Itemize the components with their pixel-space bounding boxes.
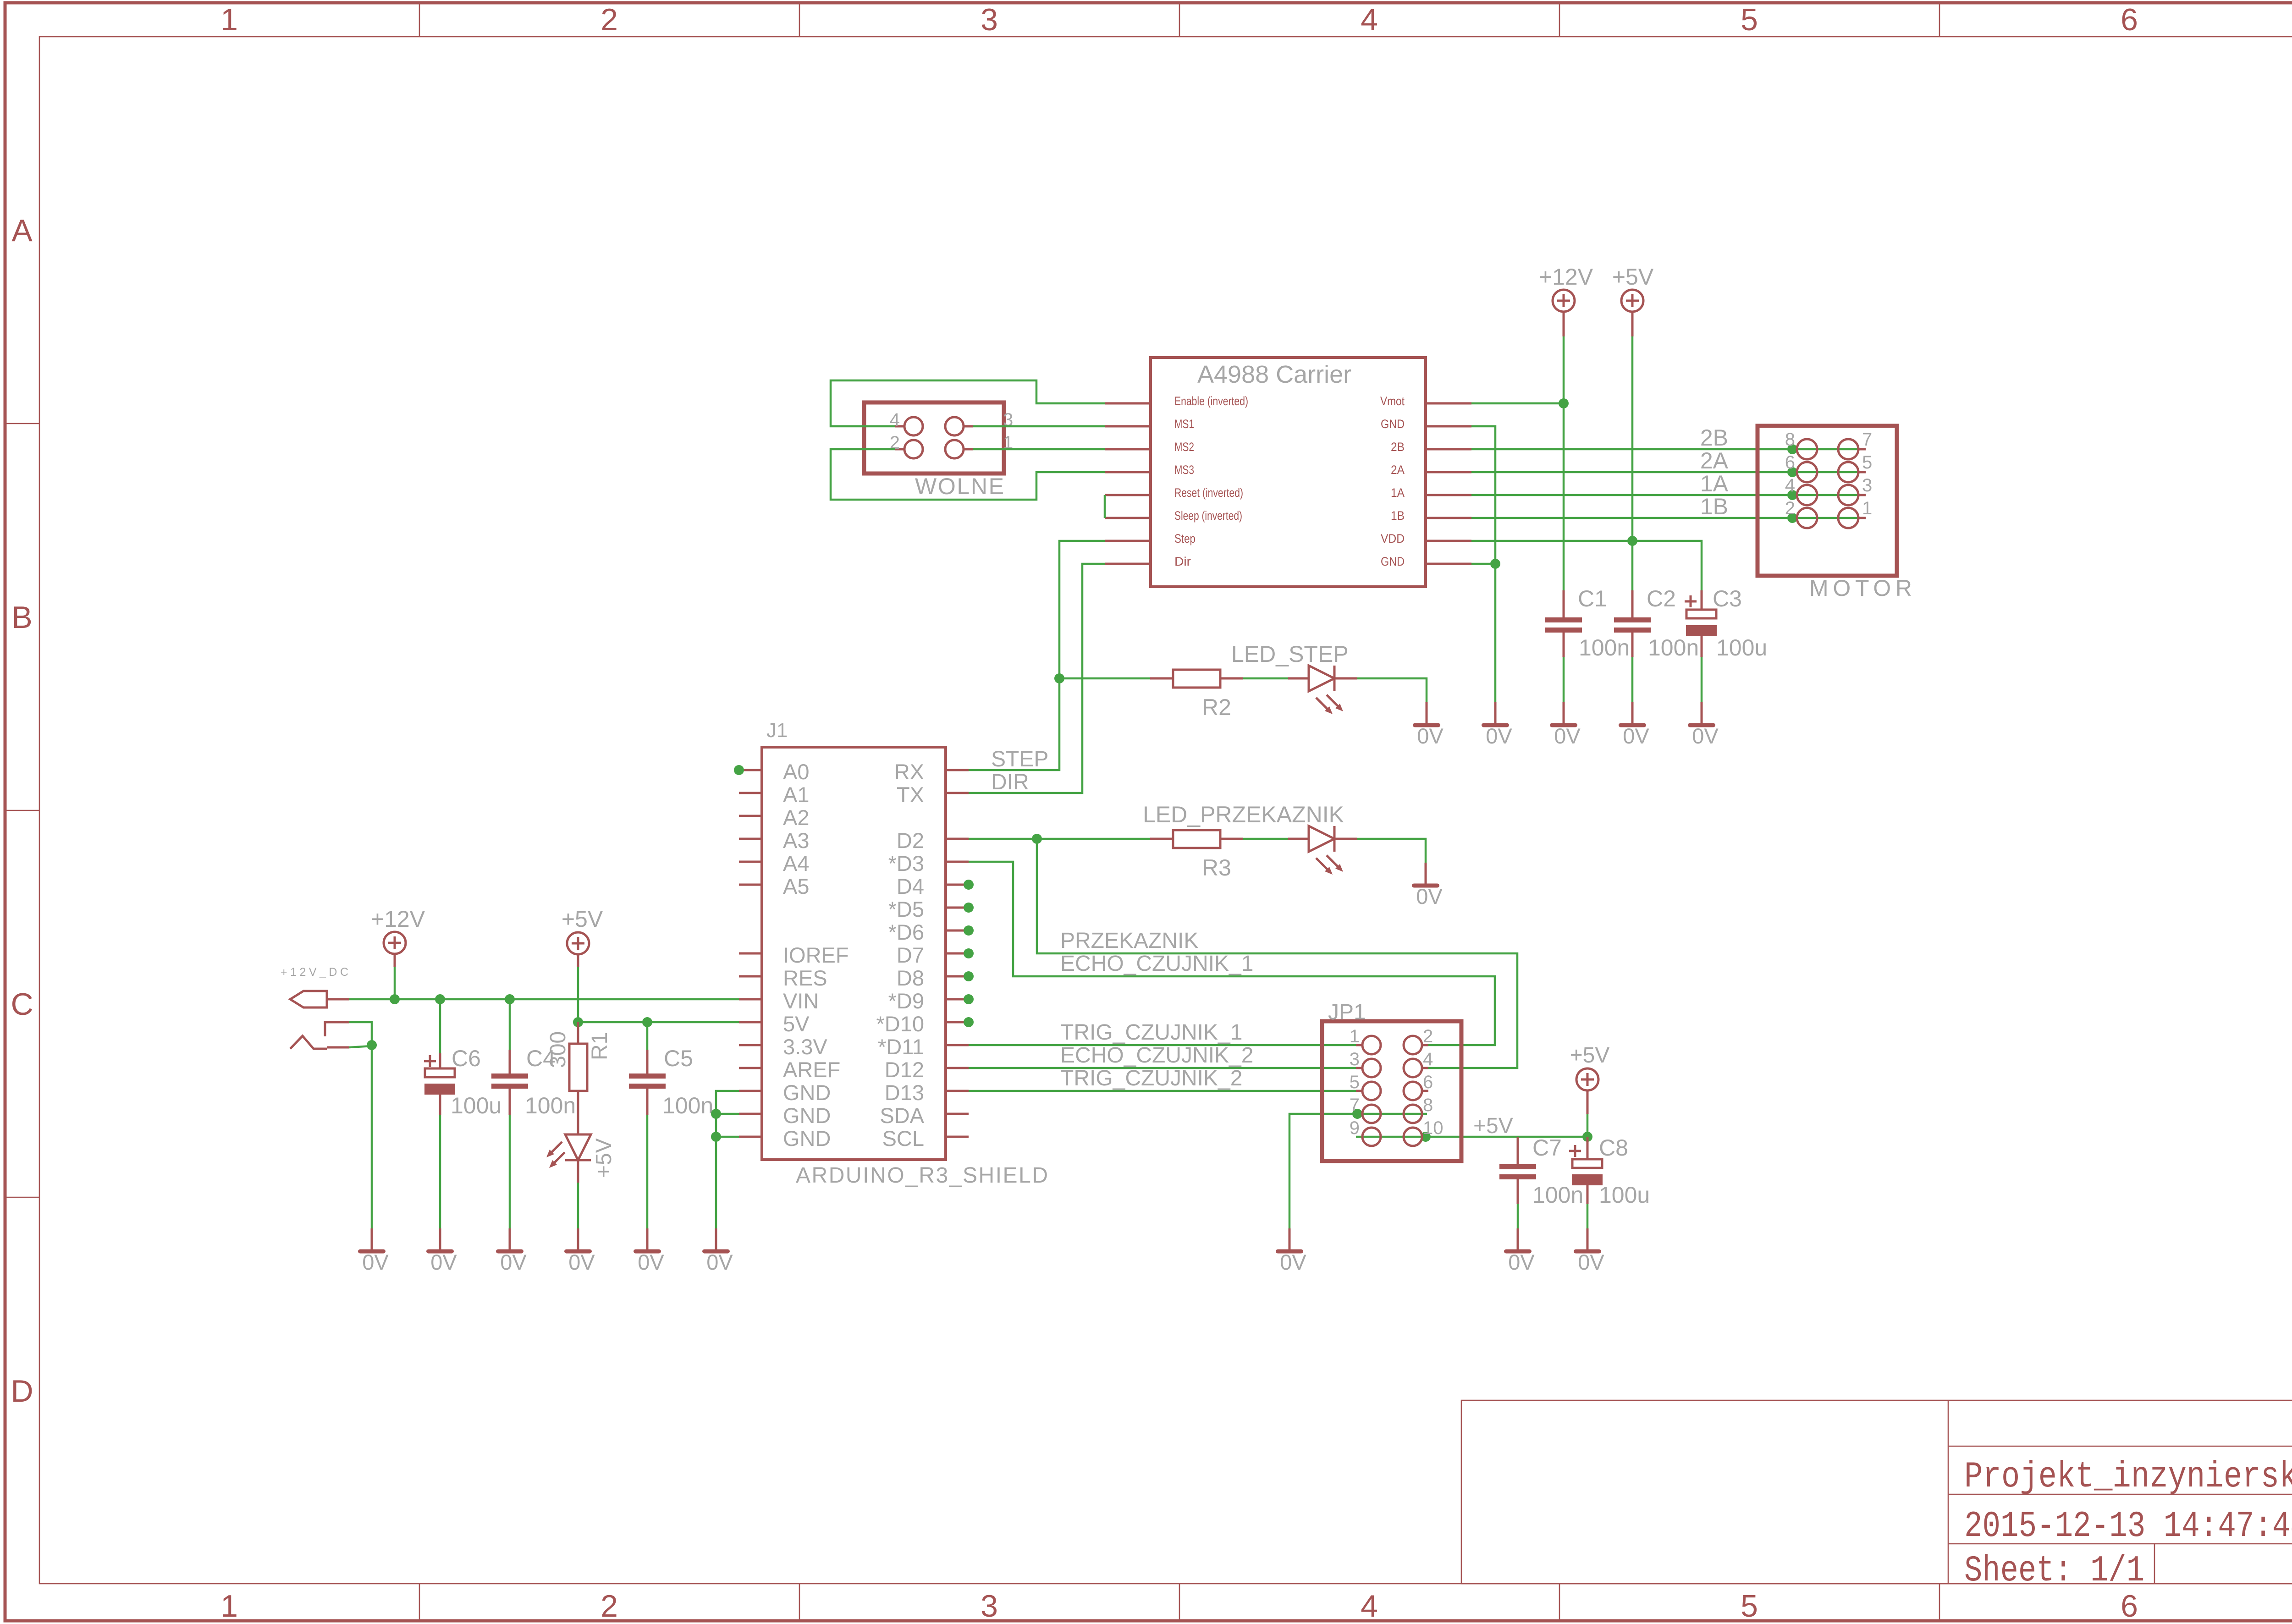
svg-text:D13: D13 [885,1080,924,1105]
net wire +5V supply to C8 [1587,1114,1589,1137]
capacitor C8 top pin [1587,1137,1589,1159]
svg-text:Enable (inverted): Enable (inverted) [1174,394,1248,408]
WOLNE pin3 stub [964,425,973,428]
svg-text:10: 10 [1423,1118,1444,1138]
U1 pin Enable stub [1105,402,1151,405]
capacitor C8 positive plate [1572,1159,1602,1168]
svg-text:A4: A4 [783,851,810,875]
svg-text:TRIG_CZUJNIK_2: TRIG_CZUJNIK_2 [1060,1066,1242,1090]
JP1 pin1 stub [1356,1044,1362,1046]
LED1 cathode pin [577,1160,579,1183]
svg-text:A: A [11,213,33,248]
MOTOR pin7 circle [1838,439,1858,459]
net wire C2 to ground [1631,657,1634,702]
svg-text:0V: 0V [1692,724,1719,748]
svg-text:300: 300 [546,1031,570,1068]
svg-text:C5: C5 [664,1046,693,1071]
svg-text:D8: D8 [897,966,924,990]
svg-text:100u: 100u [1599,1182,1650,1208]
net wire +5V supply drop [577,967,579,1022]
svg-text:ECHO_CZUJNIK_1: ECHO_CZUJNIK_1 [1060,952,1253,976]
net wire 1B to motor [1471,517,1859,519]
LED3 emission arrows [1316,855,1343,875]
svg-text:J1: J1 [766,719,788,742]
capacitor C7 bottom pin [1517,1179,1519,1204]
net wire C6 to ground [439,1115,441,1228]
svg-text:IOREF: IOREF [783,943,849,967]
net wire GND pin 2 [716,1113,739,1115]
svg-text:*D5: *D5 [888,897,924,921]
LED2 triangle [1309,666,1334,691]
resistor R1 body [569,1044,587,1091]
supply +12V symbol top [1553,290,1575,336]
connector J1 ARDUINO_R3_SHIELD box [762,747,946,1160]
net wire C4 to ground [509,1115,511,1228]
net wire +12V vertical to Vmot and C1 [1563,336,1565,590]
svg-text:2: 2 [1423,1026,1433,1046]
J1 right pin labels [876,760,924,1151]
svg-text:D: D [11,1374,33,1409]
X1 sleeve contact [325,1022,349,1036]
net wire JP1 pins 9-10 +5V [1356,1136,1587,1138]
net wire C5 to ground [646,1115,649,1228]
net wire ECHO_CZUJNIK_2 [969,1067,1356,1069]
net wire 1A to motor [1471,494,1859,496]
resistor R2 left pin [1150,677,1173,680]
svg-text:A0: A0 [783,760,810,784]
ground symbol under LED1 [564,1228,595,1274]
svg-text:+5V: +5V [1612,264,1654,290]
JP1 pin4 stub [1422,1067,1428,1069]
MOTOR pin3 stub [1858,494,1866,496]
svg-text:GND: GND [783,1103,831,1128]
column tick 3/4 bottom [1179,1584,1180,1621]
junction +5V/R1 [573,1017,583,1027]
svg-text:0V: 0V [1416,884,1443,908]
svg-text:3: 3 [981,2,998,37]
supply +5V symbol above C8 [1576,1068,1598,1114]
net wire PRZEKAZNIK [1037,839,1517,1068]
svg-text:C1: C1 [1578,586,1607,611]
ground symbol under C5 [634,1228,664,1274]
U1 pin MS1 stub [1105,425,1151,428]
svg-text:R3: R3 [1202,855,1231,881]
junction R2 branch on STEP [1054,673,1064,683]
svg-text:*D11: *D11 [878,1035,924,1059]
svg-text:0V: 0V [1554,724,1581,748]
junction 1A motor [1787,490,1797,500]
svg-text:6: 6 [2121,1589,2138,1624]
MOTOR pin7 stub [1858,448,1866,451]
title block sheet cell divider [2154,1544,2155,1584]
LED2 anode pin [1288,677,1309,680]
svg-text:C2: C2 [1647,586,1676,611]
net wire GND1 to ground rail [1471,426,1495,702]
net wire C6 drop [439,999,441,1053]
supply +5V symbol top [1621,290,1643,336]
svg-text:0V: 0V [500,1250,527,1274]
svg-text:STEP: STEP [991,747,1048,771]
ground symbol under GND bus [702,1228,733,1274]
U1 pin VDD stub [1426,540,1471,542]
junction +12V rail [390,994,400,1004]
svg-text:3.3V: 3.3V [783,1035,827,1059]
svg-text:GND: GND [1381,555,1405,568]
LED2 cathode pin [1334,677,1357,680]
net wire 2B to motor [1471,448,1859,451]
svg-text:100u: 100u [1716,635,1767,661]
row tick B/C left [5,810,39,811]
resistor R1 top pin [577,1022,579,1044]
U1 pin Dir stub [1105,563,1151,565]
svg-text:VIN: VIN [783,989,819,1013]
MOTOR pin1 stub [1858,517,1866,519]
LED3 triangle [1309,826,1334,852]
MOTOR pin4 circle [1797,485,1817,505]
net wire LED1 to ground [577,1183,579,1228]
svg-text:LED_PRZEKAZNIK: LED_PRZEKAZNIK [1143,802,1344,827]
net wire MS1 from WOLNE pin3 [973,425,1105,428]
MOTOR pin1 circle [1838,508,1858,528]
connector SV1 WOLNE box [864,402,1004,473]
net wire +12V supply drop [394,967,396,999]
svg-text:WOLNE: WOLNE [915,473,1004,499]
net wire JP1 pins 7-8 to ground [1289,1114,1427,1228]
junction VDD/C2 [1627,536,1637,546]
junction 2A motor [1787,467,1797,477]
svg-text:5: 5 [1862,452,1872,473]
column tick 5/6 top [1939,3,1940,37]
LED3 cathode pin [1334,838,1357,840]
ground symbol under LED3 [1412,863,1443,908]
svg-text:1A: 1A [1391,486,1405,500]
JP1 pin7 circle [1362,1105,1381,1123]
svg-text:B: B [11,600,32,635]
svg-text:2: 2 [601,2,618,37]
svg-text:MOTOR: MOTOR [1809,575,1912,601]
capacitor C5 bottom pin [646,1089,649,1115]
junction C4 top [505,994,515,1004]
resistor R3 right pin [1220,838,1243,840]
JP1 pin10 circle [1404,1128,1422,1146]
row tick C/D left [5,1197,39,1198]
svg-text:2: 2 [601,1589,618,1624]
capacitor C8 negative plate [1572,1174,1603,1185]
capacitor C6 bottom pin [439,1095,441,1115]
svg-text:Sleep (inverted): Sleep (inverted) [1174,509,1242,523]
net wire Reset-Sleep tie [1104,495,1106,518]
junction pin10 [1421,1132,1431,1142]
junction GND2 [711,1109,721,1119]
net wire jack ground vertical [371,1045,373,1228]
net wire MS3 wrap from WOLNE pin2 [831,449,1105,500]
svg-text:GND: GND [1381,417,1405,431]
svg-text:7: 7 [1862,429,1872,450]
U1 left pin names [1174,394,1248,568]
svg-text:SCL: SCL [882,1126,924,1151]
capacitor C1 bottom pin [1563,633,1565,657]
JP1 pin6 stub [1422,1090,1428,1092]
svg-text:*D9: *D9 [888,989,924,1013]
svg-text:A1: A1 [783,782,810,807]
svg-text:4: 4 [1361,1589,1378,1624]
WOLNE pin4 circle [904,417,923,435]
column tick 1/2 top [419,3,420,37]
svg-text:ARDUINO_R3_SHIELD: ARDUINO_R3_SHIELD [796,1163,1048,1188]
net wire ECHO_CZUJNIK_1 [969,862,1495,1045]
svg-text:2: 2 [1785,498,1795,518]
capacitor C7 top pin [1517,1137,1519,1164]
junction GND2 on vertical [1490,559,1500,569]
svg-text:2B: 2B [1391,440,1405,454]
svg-text:R1: R1 [588,1032,612,1060]
svg-text:0V: 0V [638,1250,664,1274]
U1 pin MS2 stub [1105,448,1151,451]
svg-text:3: 3 [1350,1049,1360,1069]
svg-text:8: 8 [1423,1095,1433,1115]
capacitor C7 plates [1499,1164,1536,1169]
svg-text:C3: C3 [1713,586,1742,611]
LED3 anode pin [1288,838,1309,840]
svg-text:+12V: +12V [371,906,425,932]
capacitor C2 bottom pin [1631,633,1634,657]
JP1 pin2 stub [1422,1044,1428,1046]
svg-text:TRIG_CZUJNIK_1: TRIG_CZUJNIK_1 [1060,1020,1242,1045]
capacitor C4 bottom pin [509,1089,511,1115]
svg-text:2A: 2A [1700,448,1729,473]
svg-text:100n: 100n [1648,635,1699,661]
net wire MS2 from WOLNE pin1 [973,448,1105,451]
svg-text:9: 9 [1350,1118,1360,1138]
WOLNE pin1 circle [945,440,964,458]
svg-text:6: 6 [2121,2,2138,37]
svg-text:1: 1 [1862,498,1872,518]
MOTOR pin3 circle [1838,485,1858,505]
net wire TRIG_CZUJNIK_1 [969,1044,1356,1046]
svg-text:4: 4 [1423,1049,1433,1069]
LED3 cathode bar [1333,826,1336,852]
svg-text:3: 3 [1862,475,1872,495]
svg-text:0V: 0V [430,1250,457,1274]
svg-text:4: 4 [1361,2,1378,37]
svg-text:+5V: +5V [562,906,603,932]
svg-text:C8: C8 [1599,1135,1628,1161]
capacitor C1 top wire [1563,590,1565,617]
net wire +5V vertical to VDD and C2 [1631,336,1634,590]
JP1 pin9 circle [1362,1128,1381,1146]
J1 D4-D10 unconnected dots [964,880,974,1027]
JP1 pin numbers left [1350,1026,1360,1138]
capacitor C3 positive plate [1686,610,1716,618]
LED1 emission arrows [546,1142,565,1168]
capacitor C8 bottom pin [1587,1185,1589,1204]
U1 pin 1B stub [1426,517,1471,519]
svg-text:2A: 2A [1391,463,1405,477]
capacitor C2 plates [1614,617,1651,622]
svg-text:7: 7 [1350,1095,1360,1115]
svg-text:C7: C7 [1532,1135,1562,1161]
supply +12V symbol left [384,932,406,967]
U1 pin Vmot stub [1426,402,1471,405]
J1SECTION [734,719,1048,1188]
capacitor C3 negative plate [1686,625,1717,636]
column tick 4/5 top [1559,3,1560,37]
column tick 1/2 bottom [419,1584,420,1621]
net wire D2 to junction [969,838,1037,840]
resistor R2 body [1173,670,1220,688]
svg-text:Step: Step [1174,532,1196,545]
net wire GND pin 3 [716,1136,739,1138]
U1 pin 2B stub [1426,448,1471,451]
svg-text:C6: C6 [452,1046,481,1071]
X1 switch contact [290,1036,327,1049]
JP1 pin4 circle [1404,1059,1422,1077]
J1 A0 unconnected dot [734,765,744,775]
svg-text:0V: 0V [1417,724,1444,748]
net wire STEP vertical [969,541,1105,770]
capacitor C3 bottom pin [1701,636,1703,657]
net wire R2 to LED2 [1243,677,1288,680]
svg-text:1: 1 [220,1589,238,1624]
column tick 2/3 bottom [799,1584,800,1621]
net wire C5 drop [646,1022,649,1050]
junction 2B motor [1787,444,1797,454]
capacitor C2 top wire [1631,590,1634,617]
ground symbol under C8 [1574,1228,1604,1274]
svg-text:C: C [11,987,33,1022]
supply +5V symbol left [567,932,589,967]
svg-text:5: 5 [1741,2,1758,37]
junction D2 split [1032,834,1042,844]
net wire TRIG_CZUJNIK_2 [969,1090,1356,1092]
net wire R3 branch [1037,838,1150,840]
net wire GND2 [1471,563,1495,565]
LED2 cathode bar [1333,666,1336,691]
capacitor C6 positive plate [425,1068,455,1077]
svg-text:MS3: MS3 [1174,463,1194,477]
net wire switch to ground vertical [349,1046,372,1047]
net wire 2A to motor [1471,471,1859,473]
ground symbol under LED_STEP [1413,702,1444,748]
LED1 anode pin [577,1114,579,1134]
svg-text:+5V: +5V [592,1138,616,1178]
svg-text:A2: A2 [783,805,810,830]
JP1 pin8 circle [1404,1105,1422,1123]
svg-text:100n: 100n [525,1093,576,1118]
WOLNE pin1 stub [964,448,973,451]
svg-text:2B: 2B [1700,425,1728,451]
capacitor C1 plates [1545,617,1582,622]
title block row divider 2 [1948,1494,2292,1495]
svg-text:5: 5 [1350,1072,1360,1092]
svg-text:3: 3 [981,1589,998,1624]
capacitor C3 top pin [1701,590,1703,610]
WOLNE pin3 circle [945,417,964,435]
svg-text:1: 1 [1350,1026,1360,1046]
net wire VDD to C2 C3 [1471,541,1702,590]
U1 pin Sleep stub [1105,517,1151,519]
capacitor C6 top pin [439,1053,441,1068]
JP1 pin2 circle [1404,1036,1422,1054]
junction C5 top [642,1017,652,1027]
TOPSECTION [831,264,1912,793]
ground symbol under C1 [1550,702,1581,748]
svg-text:GND: GND [783,1080,831,1105]
U1 pin GND2 stub [1426,563,1471,565]
capacitor C5 top pin [646,1050,649,1073]
net wire C4 drop [509,999,511,1050]
junction Vmot/+12V [1559,398,1569,408]
svg-text:1B: 1B [1391,509,1405,523]
svg-text:5V: 5V [783,1012,810,1036]
column tick 4/5 bottom [1559,1584,1560,1621]
LED2 emission arrows [1316,695,1343,714]
X1 tip pin [327,998,349,1001]
JP1 pin5 circle [1362,1082,1381,1100]
svg-text:D7: D7 [897,943,924,967]
connector MOTOR box [1758,426,1897,576]
U1 pin GND1 stub [1426,425,1471,428]
svg-text:0V: 0V [706,1250,733,1274]
ground symbol under C7 [1504,1228,1535,1274]
MOTOR pin2 circle [1797,508,1817,528]
svg-text:5: 5 [1741,1589,1758,1624]
junction pin7 [1352,1109,1362,1119]
ground symbol under C4 [496,1228,527,1274]
svg-text:0V: 0V [1578,1250,1604,1274]
net wire DIR vertical [969,564,1105,793]
net wire +5V rail [578,1021,739,1024]
svg-text:Projekt_inzynierski: Projekt_inzynierski [1964,1456,2292,1498]
svg-text:4: 4 [1785,475,1795,495]
MOTOR pin5 circle [1838,462,1858,482]
svg-text:GND: GND [783,1126,831,1151]
ground symbol under C6 [426,1228,457,1274]
net wire R3 to LED3 [1243,838,1288,840]
svg-text:LED_STEP: LED_STEP [1231,641,1349,667]
capacitor C6 negative plate [424,1084,455,1095]
J1 right pin stubs [946,770,969,1137]
capacitor C4 top pin [509,1050,511,1073]
column tick 5/6 bottom [1939,1584,1940,1621]
svg-text:+5V: +5V [1570,1043,1610,1068]
X1 tip contact [290,991,327,1007]
MOTOR pin8 circle [1797,439,1817,459]
net wire C3 to ground [1701,657,1703,702]
svg-text:Dir: Dir [1174,555,1191,568]
net wire C7 to ground [1517,1204,1519,1228]
column tick 2/3 top [799,3,800,37]
net wire C1 to ground [1563,657,1565,702]
junction 1B motor [1787,513,1797,523]
JP1 pin numbers right [1423,1026,1444,1138]
LEFTSECTION [281,906,739,1274]
WOLNE pin4 stub [895,425,904,428]
svg-text:AREF: AREF [783,1057,840,1082]
JP1 pin6 circle [1404,1082,1422,1100]
JP1 pin3 circle [1362,1059,1381,1077]
svg-text:SDA: SDA [880,1103,924,1128]
net wire Enable wrap from WOLNE pin4 [831,380,1105,426]
net wire STEP to R2 [1059,677,1150,680]
svg-text:1B: 1B [1700,494,1728,519]
svg-text:MS2: MS2 [1174,440,1194,454]
JP1 pin1 circle [1362,1036,1381,1054]
row tick A/B left [5,423,39,424]
title block row divider 1 [1948,1446,2292,1447]
ground symbol under A4988 GND [1482,702,1512,748]
svg-text:1: 1 [220,2,238,37]
